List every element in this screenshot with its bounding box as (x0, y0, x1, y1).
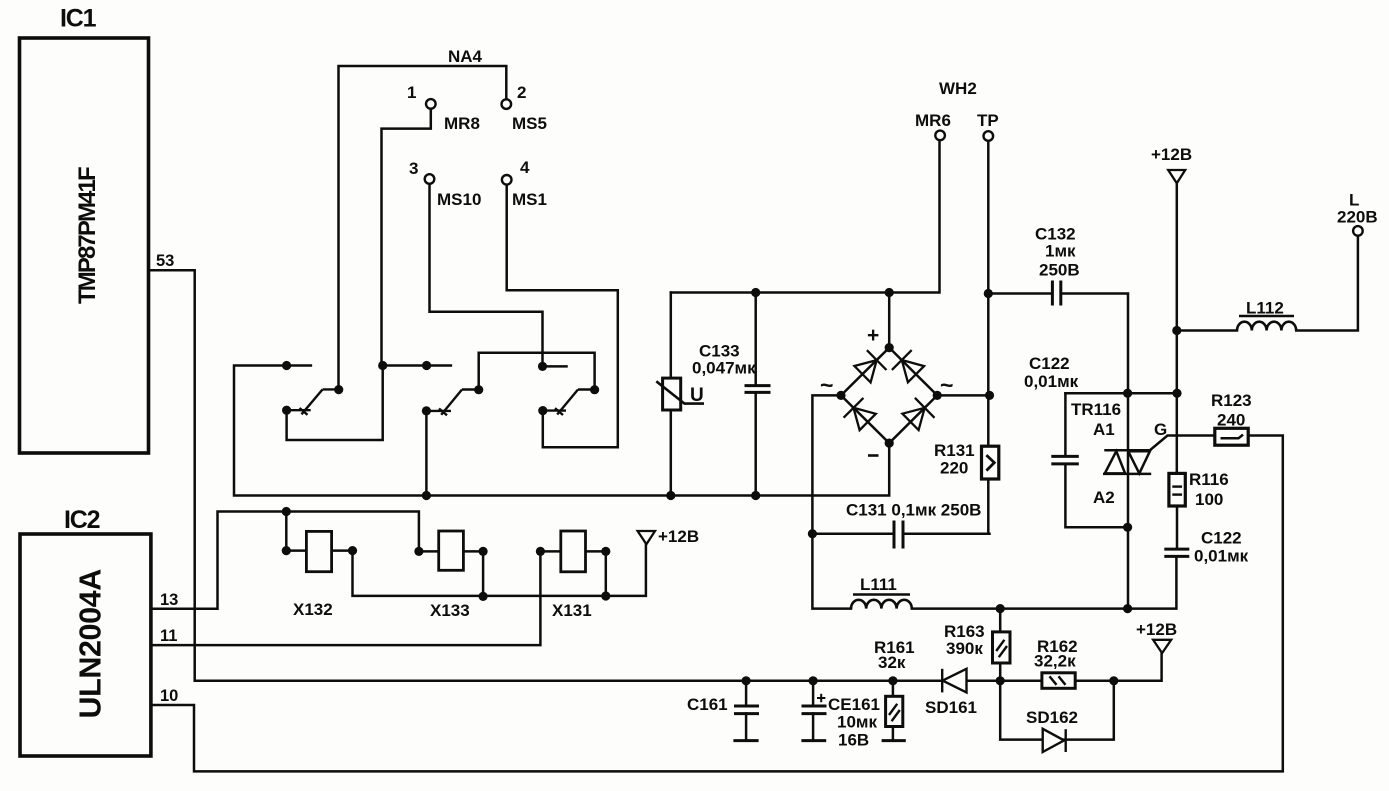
junction AC rail / varistor (666, 491, 675, 500)
power flag +12V bottom right (1153, 640, 1171, 653)
wire X132 branch (285, 512, 288, 551)
junction switch B pivot (422, 406, 431, 415)
svg-text:3: 3 (409, 159, 418, 178)
svg-text:X131: X131 (552, 601, 592, 620)
svg-text:220: 220 (940, 459, 968, 478)
junction switch A pivot (282, 406, 291, 415)
svg-text:A1: A1 (1093, 420, 1115, 439)
wire IC2 pin 13 to X133 (151, 512, 419, 609)
resistor R116 (1169, 473, 1185, 506)
wire C133 branch (754, 293, 757, 386)
wire L112 line to mains L (1177, 329, 1237, 332)
svg-text:TP: TP (977, 111, 999, 130)
wire switch B pivot down (425, 411, 428, 496)
resistor R131 (982, 446, 999, 479)
junction X131 lower (601, 591, 610, 600)
svg-text:~: ~ (820, 372, 833, 398)
wire top AC line to MR6 (671, 140, 940, 293)
svg-text:16В: 16В (838, 731, 869, 750)
junction C133 top (751, 288, 760, 297)
wire MS10 to switch B contact (430, 184, 543, 367)
diode SD162 (1043, 729, 1066, 752)
svg-text:0,01мк: 0,01мк (1024, 372, 1079, 391)
svg-text:0,01мк: 0,01мк (1194, 547, 1249, 566)
svg-text:MR6: MR6 (915, 111, 951, 130)
svg-text:4: 4 (520, 158, 530, 177)
switch lever C (543, 390, 595, 416)
junction X132 right (348, 546, 357, 555)
svg-text:C122: C122 (1201, 529, 1242, 548)
wire +12V down through R116 (1176, 183, 1179, 473)
relay coil X131 (561, 531, 586, 572)
wire MR8 to node MR8 (382, 108, 431, 365)
junction switch C pivot (538, 406, 547, 415)
wire X133 coil links (419, 550, 439, 553)
varistor U (656, 378, 704, 410)
svg-text:1: 1 (407, 83, 416, 102)
svg-text:+12В: +12В (658, 527, 699, 546)
junction X133 right (479, 547, 488, 556)
junction SD162 right (1109, 676, 1118, 685)
svg-text:1мк: 1мк (1045, 242, 1076, 261)
svg-text:L111: L111 (860, 575, 897, 594)
wire R163 branch (999, 609, 1002, 632)
junction switch B lever (474, 385, 483, 394)
wire lever bridge B-C (479, 353, 595, 390)
junction R161 (888, 676, 897, 685)
terminal 1 MR8 (426, 99, 436, 109)
svg-text:G: G (1154, 420, 1167, 439)
svg-text:TR116: TR116 (1071, 400, 1121, 419)
wire switch A pivot net (287, 366, 383, 441)
resistor R161 (882, 696, 906, 740)
label underline L112 (1239, 315, 1294, 317)
bridge diode D1 (left to +) (854, 350, 886, 382)
junction switch C lever (590, 385, 599, 394)
terminal 2 MS5 (502, 99, 512, 109)
svg-text:240: 240 (1217, 411, 1245, 430)
junction X133 left (414, 547, 423, 556)
junction switch A contact (282, 361, 291, 370)
wire varistor branch (670, 293, 673, 379)
junction X132 top (282, 507, 291, 516)
junction X131 right (601, 547, 610, 556)
terminal 3 MS10 (425, 174, 435, 184)
svg-text:53: 53 (156, 252, 174, 270)
svg-text:NA4: NA4 (448, 47, 483, 66)
capacitor C133 (745, 386, 771, 393)
junction triac bottom (1123, 604, 1132, 613)
wire bridge AC left, down to L111 and C122 corner (812, 395, 851, 608)
capacitor C131 (894, 521, 903, 549)
svg-text:C122: C122 (1029, 354, 1070, 373)
svg-text:220В: 220В (1337, 208, 1378, 227)
node bridge AC right (933, 391, 942, 400)
svg-text:L112: L112 (1246, 299, 1284, 318)
svg-text:0,047мк: 0,047мк (692, 359, 756, 378)
wire bridge plus up (888, 293, 891, 348)
svg-text:MR8: MR8 (444, 114, 480, 133)
junction R163 top (996, 604, 1005, 613)
svg-text:WH2: WH2 (939, 79, 977, 98)
IC1 box (20, 38, 149, 453)
junction AC rail / switch B (422, 491, 431, 500)
junction switch A lever (334, 385, 343, 394)
wire bridge AC right (937, 394, 989, 397)
junction switch B contact (422, 361, 431, 370)
terminal 4 MS1 (502, 175, 512, 185)
node bridge minus (885, 439, 894, 448)
bridge diamond (841, 348, 937, 444)
resistor R162 (1042, 673, 1075, 689)
wire CE161 branch (812, 681, 815, 706)
wire gate to R123 and control return bottom rail (151, 436, 1283, 772)
junction A1 / +12V line (1172, 389, 1181, 398)
svg-text:11: 11 (160, 627, 177, 645)
junction X132 left (282, 546, 291, 555)
svg-text:32,2к: 32,2к (1034, 652, 1076, 671)
IC2 box (20, 534, 151, 756)
svg-text:IC2: IC2 (64, 506, 100, 534)
junction CE161 (809, 676, 818, 685)
wire C122 left loop (1064, 393, 1067, 456)
resistor R163 (993, 632, 1011, 663)
svg-text:390к: 390к (946, 639, 983, 658)
node A2 triac (1123, 523, 1132, 532)
switch lever B (426, 390, 478, 416)
svg-text:+: + (867, 324, 879, 347)
junction L112 feed (1172, 326, 1181, 335)
bridge diode D2 (right to +) (892, 350, 924, 382)
svg-text:+12В: +12В (1136, 620, 1177, 639)
junction C131 left (808, 529, 817, 538)
terminal MR6 (935, 131, 945, 141)
svg-text:U: U (690, 385, 704, 406)
node bridge plus (885, 343, 894, 352)
svg-text:250В: 250В (1039, 261, 1080, 280)
triac TR116 (1103, 450, 1151, 474)
resistor R123 (1215, 428, 1248, 445)
svg-text:10: 10 (160, 687, 178, 705)
svg-text:C161: C161 (687, 695, 728, 714)
svg-text:CE161: CE161 (828, 695, 880, 714)
svg-text:SD161: SD161 (925, 698, 977, 717)
wire SD162 loop (1000, 681, 1114, 740)
svg-text:TMP87PM41F: TMP87PM41F (74, 167, 101, 304)
svg-text:13: 13 (160, 591, 178, 609)
wire A1 node horizontal (1065, 392, 1177, 395)
svg-text:R131: R131 (934, 441, 975, 460)
wire switch C contact stub (543, 365, 567, 368)
wire C132 branch (988, 292, 1052, 295)
capacitor CE161 (801, 706, 826, 741)
svg-text:+12В: +12В (1151, 145, 1192, 164)
node bridge AC left (836, 391, 845, 400)
diode SD161 (942, 669, 966, 693)
wire MS1 to switch C pivot (507, 184, 618, 447)
wire R161 branch (892, 681, 895, 697)
power flag +12V near X131 (638, 531, 655, 544)
wire X131 coil links (540, 550, 560, 553)
svg-text:IC1: IC1 (60, 5, 97, 33)
junction C161 (742, 676, 751, 685)
svg-text:MS10: MS10 (437, 190, 481, 209)
svg-text:~: ~ (940, 372, 953, 398)
bridge diode D3 (minus to left) (844, 398, 876, 430)
capacitor C122 bottom (1164, 549, 1189, 556)
node A1 triac (1123, 389, 1132, 398)
wire triac main vertical (1127, 393, 1130, 608)
junction X131 left (536, 547, 545, 556)
svg-text:R123: R123 (1211, 391, 1252, 410)
junction R131 top (985, 391, 994, 400)
capacitor C122 left (1051, 456, 1079, 464)
inductor L112 (1237, 322, 1296, 331)
junction X133 lower (479, 592, 488, 601)
wire switch A contact / bottom AC rail to bridge minus (234, 366, 889, 496)
capacitor C161 (733, 706, 759, 741)
svg-text:2: 2 (517, 83, 526, 102)
terminal L 220V (1353, 226, 1363, 236)
svg-text:10мк: 10мк (837, 713, 877, 732)
wire C131 branch (812, 532, 893, 535)
svg-text:32к: 32к (878, 653, 906, 672)
junction C133 bottom (751, 491, 760, 500)
bridge diode D4 (minus to right) (902, 398, 934, 430)
capacitor C132 (1052, 281, 1060, 306)
svg-text:A2: A2 (1093, 488, 1115, 507)
svg-text:MS5: MS5 (512, 114, 547, 133)
svg-text:X133: X133 (430, 601, 470, 620)
node TP junction (984, 289, 993, 298)
label underline L111 (853, 593, 910, 595)
svg-text:MS1: MS1 (512, 190, 547, 209)
relay coil X132 (306, 531, 331, 571)
terminal TP (984, 131, 994, 141)
node MS10 junction (538, 362, 547, 371)
junction R163 bottom / SD162 left (996, 676, 1005, 685)
wire switch B contact line (383, 364, 451, 367)
wire NA4 top link (339, 66, 507, 390)
svg-text:C131 0,1мк 250В: C131 0,1мк 250В (846, 501, 981, 520)
junction bridge top wire (885, 288, 894, 297)
svg-text:X132: X132 (293, 600, 333, 619)
label - (bridge minus) (868, 454, 879, 457)
inductor L111 (851, 600, 912, 609)
wire IC2 pin 11 to X131 (151, 551, 541, 645)
power flag +12V top right (1168, 170, 1185, 183)
svg-text:SD162: SD162 (1026, 708, 1078, 727)
wire IC1 pin 53 long rail (150, 270, 1162, 681)
node MR8 junction (378, 361, 387, 370)
svg-text:ULN2004A: ULN2004A (74, 569, 108, 719)
switch lever A (287, 389, 339, 414)
svg-text:100: 100 (1195, 490, 1223, 509)
wire TP vertical through R131 (987, 140, 990, 534)
svg-text:R116: R116 (1189, 470, 1229, 489)
relay coil X133 (439, 531, 464, 570)
wire C161 branch (745, 681, 748, 706)
